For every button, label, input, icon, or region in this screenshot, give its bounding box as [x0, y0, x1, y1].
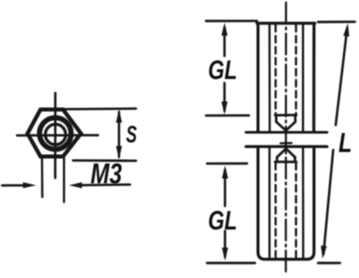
lower GL arrowhead down [222, 248, 228, 261]
svg-text:L: L [339, 128, 352, 159]
upper GL dimension line lower segment [223, 83, 225, 111]
upper body top edge [257, 22, 315, 25]
upper drill stub right [294, 115, 297, 122]
hex body outline [28, 110, 82, 157]
lower GL arrowhead up [222, 166, 228, 179]
left view: vertical center line [54, 93, 56, 178]
extension line left of M3 width [41, 158, 43, 197]
upper drill point cone [276, 122, 295, 131]
lower thread hidden line left [275, 163, 277, 257]
side view: center axis line [285, 3, 287, 276]
L dimension line lower segment [324, 150, 334, 254]
upper hex facet line left [268, 24, 270, 131]
S dimension arrowhead up [116, 110, 122, 123]
svg-text:GL: GL [208, 56, 237, 86]
lower drill stub left [276, 157, 279, 162]
extension line right of M3 width [63, 158, 65, 202]
lower GL dimension line lower segment [224, 231, 226, 257]
L bottom extension line [318, 262, 340, 264]
upper hex facet line right [302, 24, 304, 131]
L arrowhead up [343, 23, 349, 36]
L dimension line upper segment [336, 28, 348, 125]
outer chamfer circle [40, 118, 72, 150]
upper GL dimension line upper segment [223, 28, 225, 57]
lower GL bottom extension line [207, 262, 255, 264]
lower GL dimension line upper segment [224, 170, 226, 206]
upper thread bottom flat [275, 114, 296, 117]
upper thread hidden line right [295, 25, 297, 114]
upper GL arrowhead down [221, 102, 227, 115]
upper thread hidden line left [275, 25, 277, 114]
upper GL arrowhead up [221, 23, 227, 36]
upper drill stub left [275, 115, 278, 122]
upper body right side [312, 23, 315, 132]
lower body top break edge [246, 145, 327, 148]
lower body outline with rounded bottom [258, 147, 314, 260]
M3 leader line [80, 183, 130, 186]
svg-text:S: S [126, 121, 137, 148]
center axis cross tick [281, 142, 292, 144]
L top extension line [318, 21, 355, 24]
lower GL top extension line [207, 162, 247, 165]
upper GL top extension line [206, 20, 257, 23]
lower drill stub right [294, 157, 297, 162]
left pointer arrowhead [23, 182, 36, 188]
svg-text:M3: M3 [90, 157, 122, 190]
M3 leader arrowhead [69, 182, 82, 188]
upper GL flat extension line [206, 114, 249, 117]
left view: horizontal center line [17, 134, 98, 137]
S dimension line [118, 112, 120, 157]
lower hex facet line right [302, 148, 304, 258]
S dimension top extension line [62, 107, 136, 110]
S dimension arrowhead down [116, 146, 122, 159]
svg-text:GL: GL [208, 206, 237, 236]
inner thread circle M3 [45, 124, 65, 144]
lower hex facet line left [268, 148, 270, 258]
upper body left side [257, 23, 260, 132]
S dimension bottom extension line [73, 159, 136, 162]
lower thread top flat [275, 161, 296, 164]
lower drill point cone [277, 149, 295, 158]
left pointer line [2, 184, 26, 186]
upper body bottom break edge [246, 131, 327, 134]
lower thread hidden line right [295, 163, 297, 257]
L arrowhead down [321, 246, 327, 259]
